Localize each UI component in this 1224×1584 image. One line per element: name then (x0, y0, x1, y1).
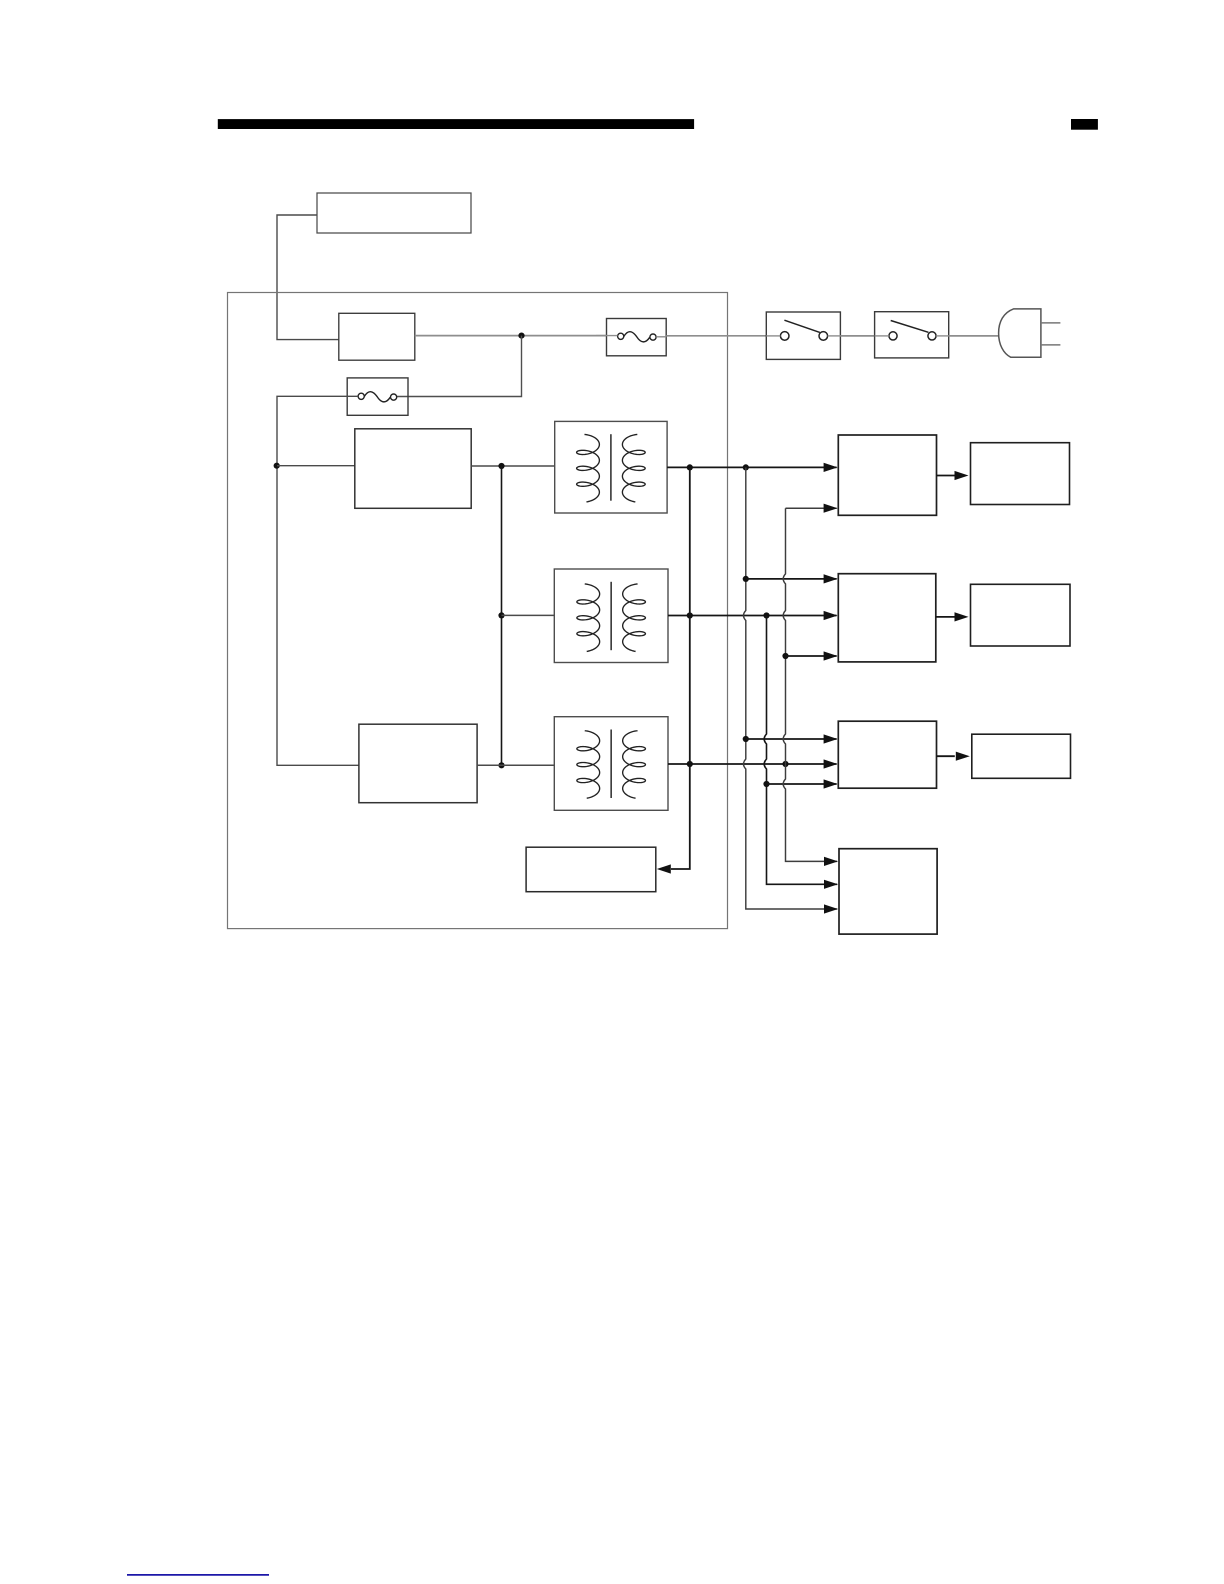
transformer T1 (555, 421, 667, 513)
wire relay B to fuse F1 (415, 335, 607, 337)
block C (sub power) (359, 724, 477, 803)
wire regulator 3 output (937, 755, 955, 757)
junction rail3 node (782, 653, 788, 659)
junction T1 out node b (743, 464, 749, 470)
wire switch S1 to switch S2 (840, 335, 874, 337)
power supply enclosure (228, 293, 728, 929)
fuse F1 (596, 319, 666, 356)
junction left bus node (274, 463, 280, 469)
regulator block 2 (838, 574, 936, 662)
wire rail3 to regulator 2 (786, 655, 837, 657)
junction primary node 2 (498, 612, 504, 618)
wire bus to transformer T2 (502, 614, 555, 616)
wire switch S2 to plug (949, 335, 1000, 337)
junction primary node 1 (498, 463, 504, 469)
footer link rule (127, 1574, 269, 1576)
block E (protection) (839, 849, 937, 934)
wire regulator 2 output (936, 616, 955, 618)
wire fuse F1 to switch S1 (666, 335, 766, 337)
junction T3 cross node (687, 761, 693, 767)
fuse F2 (347, 378, 408, 415)
block B (relay) (339, 313, 415, 360)
power switch S2 (875, 312, 949, 358)
junction mains node (518, 333, 524, 339)
junction T1 out node a (687, 464, 693, 470)
junction rail1 node a (743, 576, 749, 582)
transformer T3 (554, 717, 668, 811)
AC plug (999, 309, 1061, 357)
junction primary node 3 (498, 762, 504, 768)
block A (power control) (317, 193, 471, 233)
output block 2 (971, 584, 1071, 646)
wire feedback line (671, 467, 690, 869)
output block 3 (972, 734, 1071, 778)
wire fuse F2 to mains node (397, 336, 522, 397)
wire rail1 to regulator 2 (746, 578, 837, 580)
wire bus to rectifier (277, 465, 355, 467)
wire T2 secondary output (668, 615, 837, 617)
wire block C to transformer T3 (477, 764, 554, 766)
wire T1 secondary output (667, 466, 837, 468)
junction rail1 node b (743, 736, 749, 742)
regulator block 1 (838, 435, 936, 515)
page corner mark (1071, 119, 1098, 130)
bus line 2 (T2 rail) (764, 616, 837, 885)
title bar (218, 119, 694, 129)
bus line 1 (T1 rail) (744, 467, 838, 909)
wire rectifier to transformer T1 (471, 465, 555, 467)
junction rail2 node (763, 781, 769, 787)
wire rail2 to regulator 3 (767, 783, 837, 785)
bus line 3 (T3 rail) (786, 507, 837, 509)
output block 1 (971, 443, 1070, 505)
junction T2 out node (763, 612, 769, 618)
wire fuse F2 to block C bus (277, 396, 359, 765)
regulator block 3 (838, 721, 936, 788)
junction T3 out node (782, 761, 788, 767)
transformer T2 (554, 569, 668, 663)
power switch S1 (766, 312, 840, 359)
primary distribution bus (501, 466, 503, 765)
wire block A to relay B (277, 215, 339, 340)
wire T3 secondary output (668, 763, 837, 765)
wire rail1 to regulator 3 (746, 738, 837, 740)
junction T2 cross node (687, 612, 693, 618)
block F (error detector) (526, 847, 656, 892)
wire regulator 1 output (937, 475, 955, 477)
block D (rectifier) (355, 429, 471, 509)
